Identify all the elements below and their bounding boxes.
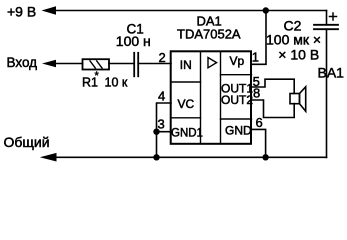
wire: Vp branch to pin 1 [251,11,266,65]
capacitor C2 [314,25,338,29]
wire: pin 8 to speaker bottom [251,100,294,118]
svg-text:IN: IN [180,58,192,72]
svg-text:*: * [95,70,100,82]
IC row divider under VC [171,117,201,119]
wire: R1 to C1 [109,63,134,65]
svg-text:Vp: Vp [230,54,245,68]
svg-text:4: 4 [158,89,165,104]
IC column divider right [220,52,222,144]
wire: pin 5 to speaker top [251,79,294,93]
svg-text:100 мк ×: 100 мк × [266,32,321,48]
arrow: input [42,60,56,67]
svg-text:1: 1 [252,50,259,65]
wire: C1 to pin 2 [138,63,171,65]
wire: input to R1 [55,63,83,65]
svg-text:+9 В: +9 В [7,4,36,20]
IC row divider under IN [171,81,201,83]
speaker BA1 [290,87,306,112]
wire: C2 branch top [326,11,328,25]
arrow: common rail [40,153,57,162]
svg-text:TDA7052A: TDA7052A [177,27,241,42]
svg-text:6: 6 [256,115,263,130]
svg-text:OUT2: OUT2 [221,93,253,107]
svg-text:GND: GND [225,124,252,138]
svg-text:GND1: GND1 [171,128,203,140]
IC row divider under OUT2 [221,118,252,120]
svg-text:× 10 В: × 10 В [278,47,319,63]
svg-text:Вход: Вход [7,55,38,70]
capacitor C1 [134,53,138,77]
wire: C2 branch bottom [326,29,328,157]
svg-text:8: 8 [253,86,260,101]
node: pin 3 junction [153,129,159,135]
svg-text:100 н: 100 н [116,33,151,49]
IC row divider under Vp [221,74,252,76]
resistor R1 [83,59,110,69]
wire: bottom common rail [54,156,327,158]
wire: pin 6 to ground rail [252,129,266,157]
svg-text:10 к: 10 к [105,76,128,90]
wire: pin 4 to left branch [157,103,172,158]
wire: top supply rail [55,10,327,12]
svg-text:Общий: Общий [4,134,50,150]
svg-text:BA1: BA1 [318,65,345,81]
IC DA1 TDA7052A outline [171,51,251,144]
label C2 polarity + [330,13,337,20]
node: top rail junction [263,7,269,13]
svg-text:2: 2 [159,50,166,65]
svg-text:VC: VC [178,97,195,111]
wire: pin 3 stub [157,131,172,133]
node: right ground junction [262,154,268,160]
svg-text:3: 3 [158,117,165,132]
node: left ground junction [153,154,159,160]
amplifier triangle symbol [208,58,217,68]
IC column divider left [200,52,202,144]
arrow: +9 В supply [42,6,57,14]
